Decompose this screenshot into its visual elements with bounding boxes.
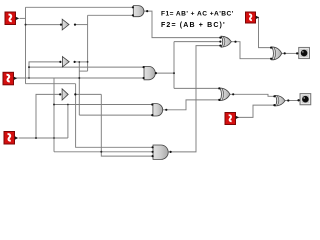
wire C riser to G6 line [67,105,69,139]
wire to AND G6 input 1 [54,104,152,106]
wire G1 output to OR G2 input 1 [144,11,221,37]
wire C riser to NOT U3 input [36,94,60,138]
OR gate G4 [275,95,285,106]
wire riser x87.6 [87,15,89,71]
OR gate G3 [272,47,282,60]
wire U3 output [75,93,101,95]
wire trunk x174 [173,42,175,89]
logic probe O1 [296,47,310,58]
wire to OR G2 input 2 [174,41,220,43]
wire U1 output [75,24,88,26]
wire G3 output to probe O1 [282,52,298,54]
wire riser to G1 input 2 [88,14,133,16]
logic probe O2 [297,94,310,105]
wire B/C trunk vertical x54 [53,78,55,152]
wire A trunk vertical [25,7,27,83]
wire B' vertical [78,62,80,115]
wire C pin [19,137,68,139]
svg-text:F2= (AB + BC)': F2= (AB + BC)' [161,22,226,29]
AND gate G7 (3-input) [153,145,168,159]
wire G6 output to OR G5 input 2 [163,100,220,110]
wire A feeder at y83.7 [26,83,76,85]
NOT gate U1 [62,19,69,30]
svg-text:F1= AB' + AC +A'BC': F1= AB' + AC +A'BC' [161,11,234,18]
wire G2 output to OR G3 input 2 [231,42,271,59]
wire E pin to OR G4 input 2 [236,105,275,117]
wire D pin down to OR G3 input 1 [256,17,272,47]
AND gate G6 [153,104,163,116]
wire top rail to G1 input 1 [26,6,133,8]
AND gate G1 [133,6,144,17]
NOT gate U3 [62,89,68,100]
wire to OR G5 input 1 [174,87,220,89]
wire to AND G7 input 2 [54,151,153,153]
input D logicstate [246,12,260,23]
pin dots [59,6,289,157]
wire B riser to NOT U2 input [29,62,60,78]
wire U2 output [75,61,88,63]
wire B pin [16,77,144,79]
wire to NOT U1 input [26,24,61,26]
wire G7 output up to OR G2 input 3 [168,46,220,152]
wire G4 output to probe O2 [285,100,299,102]
wire G8 output [155,72,174,74]
wire A pin [20,17,26,19]
AND gate G8 [144,66,155,79]
OR gate G2 (3-input) [221,36,231,47]
wire G5 output to OR G4 input 1 [230,94,274,96]
OR gate G5 [220,88,230,101]
wire A vertical to AND G7 input 1 [76,84,153,148]
wire C' vertical to AND G7 input 3 [101,94,152,156]
input A logicstate [5,12,19,25]
input E logicstate [225,113,239,125]
wire jog left at y71 [79,70,87,72]
input C logicstate [4,132,18,145]
NOT gate U2 [62,57,69,67]
wire branch to AND G8 input 1 [29,66,144,68]
input B logicstate [3,72,17,85]
wire to AND G6 input 2 [79,114,152,116]
